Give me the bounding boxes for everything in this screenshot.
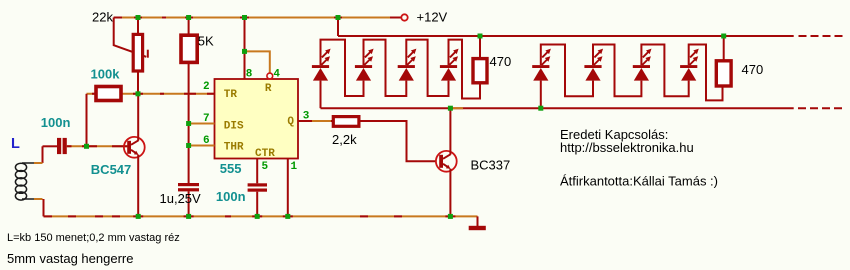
junction LED top rail at R470b [721,34,726,39]
svg-text:CTR: CTR [255,148,275,160]
svg-text:L=kb 150 menet;0,2 mm vastag r: L=kb 150 menet;0,2 mm vastag réz [7,232,180,244]
wire pin 1 to ground [287,159,289,217]
wire THR row (orange) [189,145,215,147]
wire +12V top rail red segments [114,17,401,19]
wire weave D3 top to D4 bottom [406,40,448,96]
wire LED bottom rail dashed continuation [798,107,846,109]
supply pin circle +12V [401,14,407,20]
junction TR row [136,91,141,96]
wire weave D7 top to D8 bottom [641,45,688,97]
wire pot wiper from rail end [114,18,147,57]
reset pin circle [267,73,273,79]
wire 5K top lead [188,18,190,36]
wire 2,2k to BC337 base [359,121,436,161]
wire BC337 collector [449,108,451,154]
wire LED bottom rail [321,107,794,109]
wire cap row down to coil [42,146,44,163]
wire LED supply drop from +12V [337,18,339,37]
svg-text:100n: 100n [41,115,71,130]
svg-text:Átfirkantotta:Kállai Tamás :): Átfirkantotta:Kállai Tamás :) [560,173,718,188]
wire pin 4 reset (orange) [245,51,270,73]
junction ground at 1u cap [186,214,191,219]
wire +12V top rail (orange) [114,17,401,19]
wire weave D6 top to D7 bottom [593,45,641,97]
LED D8 [680,49,699,81]
capacitor 100n plates (left) [57,138,61,154]
junction ground at pin1 [285,214,290,219]
junction DIS row [186,121,191,126]
svg-text:2,2k: 2,2k [332,132,357,147]
svg-text:TR: TR [224,89,238,101]
wire D5 bottom to rail [540,81,542,109]
wire weave D8 top to R470b bottom [689,45,723,101]
wire LED top rail dashed continuation [799,35,847,37]
wire LED top rail [338,35,794,37]
wire base row left of cap [43,145,58,147]
svg-text:THR: THR [224,141,244,153]
svg-text:DIS: DIS [224,120,244,132]
svg-text:R: R [265,83,272,95]
svg-text:L: L [11,136,20,152]
wire 100n to ground [256,192,258,217]
wire D1 bottom to rail [320,81,322,109]
svg-text:2: 2 [203,81,210,93]
junction top rail at pot [136,15,141,20]
svg-text:555: 555 [220,161,242,176]
svg-text:4: 4 [273,68,280,80]
svg-text:5: 5 [262,161,269,173]
wire R470a top lead [479,36,481,59]
ground symbol [469,226,486,230]
resistor 470 (group 1) body [473,59,487,83]
svg-text:BC547: BC547 [91,162,131,177]
capacitor 1u,25V plates [178,183,199,186]
svg-text:Q: Q [287,116,294,128]
LED D6 [584,49,603,81]
junction LED bottom rail at D5 [538,106,543,111]
wire BC547 emitter [137,155,139,217]
svg-text:http://bsselektronika.hu: http://bsselektronika.hu [560,140,694,155]
svg-text:5mm vastag hengerre: 5mm vastag hengerre [7,251,133,266]
wire BC547 collector [137,94,139,141]
wire ground drop [477,216,479,226]
wire 100k left corner down [86,94,88,147]
wire ground rail red segments [44,215,456,217]
resistor 2,2k body [333,117,359,127]
wire Q output row [298,120,333,122]
svg-text:8: 8 [246,68,253,80]
junction top rail at LED drop [336,15,341,20]
resistor 100k body [96,87,121,101]
wire pin 5 CTR down [256,159,258,184]
junction ground at BC337 emitter [448,214,453,219]
junction THR row [186,143,191,148]
junction ground at BC547 emitter [136,214,141,219]
wire pin 8 vertical [244,18,246,80]
LED D5 [532,49,551,81]
junction LED bottom rail at BC337 [448,106,453,111]
LED D1 [312,49,331,81]
junction top rail at 5K [186,15,191,20]
svg-text:100n: 100n [216,189,246,204]
wire coil exit down [43,199,45,216]
wire pot bottom lead [137,71,139,94]
wire DIS row (orange) [189,123,215,125]
wire ground rail (orange) [44,215,478,217]
svg-text:100k: 100k [91,66,121,81]
wire column cap to ground [188,191,190,216]
wire base row red segments [67,145,128,147]
wire BC337 emitter [449,169,451,217]
wire weave D5 top to D6 bottom [541,45,593,97]
LED D7 [633,49,652,81]
junction LED top rail at R470a [478,34,483,39]
wire R470b top lead [723,36,725,61]
wire TR row (orange) [87,93,215,95]
LED D3 [398,49,417,81]
wire TR row red segments [92,93,215,95]
svg-text:+12V: +12V [417,10,448,25]
svg-text:BC337: BC337 [471,158,511,173]
resistor 470 (group 2) body [716,61,731,86]
wire pot top lead [137,18,139,35]
transistor Q2 BC337 [436,151,457,172]
wire coil entry (orange) [34,163,43,199]
resistor 5K body [181,35,197,62]
wire weave D2 top to D3 bottom [364,40,407,96]
wire weave D1 top to D2 bottom [321,40,364,96]
svg-text:470: 470 [490,54,512,69]
transistor Q1 BC547 [124,137,145,158]
wire Q row orange segment [312,120,331,122]
wire base row (orange) cap to BC547 [67,145,128,147]
svg-text:1u,25V: 1u,25V [160,191,202,206]
inductor L coil [15,163,34,200]
junction top rail at pin8 [242,15,247,20]
svg-text:470: 470 [742,62,764,77]
LED D4 [440,49,459,81]
wire weave D4 top to R470a bottom [449,40,481,99]
junction ground at 100n [255,214,260,219]
svg-text:22k: 22k [92,9,113,24]
wire 5K bottom column to cap [188,62,190,183]
wire LED bottom rail orange segment [453,107,463,109]
LED D2 [355,49,374,81]
junction base row / 100n [84,144,89,149]
trimmer potentiometer 22k body [133,34,142,71]
capacitor 100n plates (under 555) [248,183,267,186]
pot wiper bar [147,50,149,58]
junction pin8/pin4 [242,49,247,54]
svg-text:1: 1 [291,161,298,173]
svg-text:5K: 5K [198,33,214,48]
IC 555 body [215,79,299,159]
